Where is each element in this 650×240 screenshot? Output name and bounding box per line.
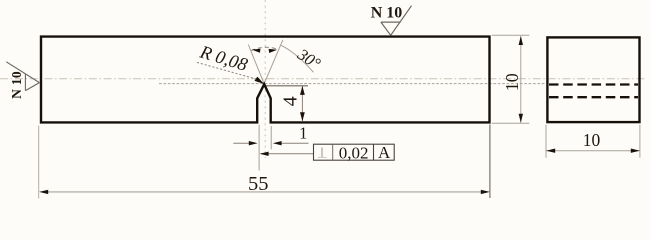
svg-text:1: 1 <box>299 124 307 143</box>
svg-text:55: 55 <box>248 173 269 195</box>
svg-text:4: 4 <box>280 96 302 106</box>
svg-text:0,02: 0,02 <box>339 143 369 162</box>
svg-text:10: 10 <box>583 130 601 150</box>
svg-text:N 10: N 10 <box>371 4 403 21</box>
svg-text:10: 10 <box>502 73 522 91</box>
svg-text:A: A <box>378 143 391 162</box>
svg-text:N 10: N 10 <box>9 71 24 99</box>
